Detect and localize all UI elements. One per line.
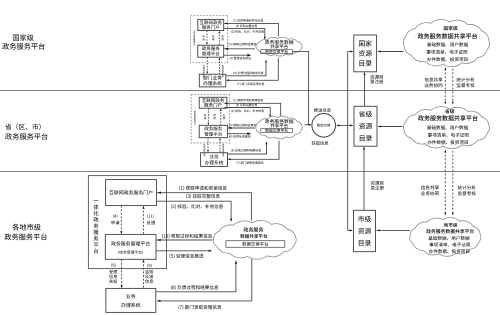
N wire (3) 获取完整信息 from portal to cloud [224, 29, 266, 40]
wire vertical catalog bus line [347, 52, 349, 231]
N label (8) 反馈过程和结果信息 [234, 72, 264, 75]
label 统计分析监督考核 lower [458, 185, 476, 195]
label 资源目录注册 upper [370, 75, 383, 84]
N label 受理 between portal and mgmt [212, 35, 214, 40]
divider line between provincial and municipal sections [0, 171, 500, 173]
P box 业务办理系统 [201, 153, 228, 167]
P wire 告知反馈信息 up arrow from biz system [219, 138, 224, 156]
N box 互联网政务服务门户 [198, 19, 224, 30]
C wire (3) 获取完整信息 from portal to cloud [156, 201, 232, 222]
wire 资源目录注册 arrow from 省级资源目录 up to 国家资源目录 [363, 72, 365, 106]
N label (7) 部门录取受理信息 [237, 83, 264, 86]
P label (10) 获取过程和结果信息 [228, 124, 259, 127]
N wire 反馈 up arrow between portal and mgmt [218, 31, 223, 46]
N box 数据交换平台 inside cloud [261, 50, 293, 54]
P label (2) 核验、比对、补充信息 [231, 109, 264, 112]
wire dashed 统计分析监督考核 between national and provincial clouds [452, 69, 454, 105]
label 省(区、市)政务服务平台 [5, 123, 47, 139]
N wire 受理信息告知 down arrow to dept system [203, 57, 208, 77]
C label (1) 获取申请和表单信息 [179, 186, 226, 191]
label 资源目录注册 lower [371, 181, 384, 190]
N wire 告知反馈信息 up arrow from dept system [219, 57, 224, 77]
label 获取信息 below circle [312, 141, 329, 145]
wire dashed 统计分析监督考核 between provincial and municipal clouds [452, 151, 454, 216]
wire stub into 国家资源目录 left [348, 51, 354, 53]
wire dashed 信息共享业务协同 between national and provincial clouds [444, 67, 446, 104]
C wire (4) 申请 dashed down arrow [111, 206, 122, 235]
wire double arrow between circle and 省级资源目录 [337, 124, 354, 126]
P wire (7) 部门录取受理信息 from cloud to biz system [228, 141, 279, 161]
N cloud 政务服务数据共享平台 [256, 37, 302, 56]
P wire (10) 获取过程和结果信息 from cloud to mgmt [227, 127, 254, 130]
C vertical label 一体化政务服务平台 [93, 200, 98, 253]
P box 数据交换平台 inside cloud [261, 129, 293, 133]
P label (5) 受理信息推送 [229, 135, 250, 138]
wire stub into 市级资源目录 left [348, 229, 353, 231]
label 信息共享业务协同 upper [424, 77, 442, 87]
N wire (5) 受理信息推送 from mgmt to cloud [224, 54, 251, 57]
P wire 申请 down arrow between portal and mgmt [204, 108, 209, 125]
C box 数据交换平台 inside cloud [226, 241, 285, 248]
N wire 申请 down arrow between portal and mgmt [202, 31, 207, 46]
P label (3) 获取完整信息 [236, 104, 257, 107]
P label (7) 部门录取受理信息 [237, 161, 264, 164]
C label (10) 获取过程和结果信息 [162, 234, 212, 239]
N dashed container 一体化政务服务平台 [191, 15, 228, 63]
C cloud 政务服务数据共享平台 [213, 220, 296, 259]
C label (7) 部门录取受理信息 [178, 305, 221, 310]
box 省级资源目录 [354, 106, 377, 146]
label 信息共享业务协同 lower [421, 185, 439, 195]
P box 互联网政务服务门户 [199, 97, 227, 108]
C box 业务办理系统 [106, 288, 156, 312]
C label (3) 获取完整信息 [186, 194, 220, 199]
box 国家资源目录 [354, 35, 377, 72]
wire from provincial data cloud to 省级资源目录 [378, 126, 402, 128]
wire 资源目录注册 arrow from 市级资源目录 up to 省级资源目录 [363, 146, 365, 210]
cloud 地市级政务服务数据共享平台 [410, 218, 481, 257]
wire from municipal data cloud to 市级资源目录 [377, 229, 410, 231]
P label (1) 获取申请和表单信息 [233, 99, 263, 102]
P wire 受理信息告知 down arrow to biz system [203, 138, 208, 157]
P wire (1) 获取申请和表单信息 from cloud to portal [224, 102, 281, 117]
C wire (6) 受理信息告知 dashed down arrow [109, 259, 123, 288]
N label (1) 获取申请和表单信息 [233, 19, 263, 22]
N wire from 数据交换平台 down to provincial exchange node [292, 52, 308, 125]
C wire (8) 反馈过程和结果信息 from biz system to cloud [156, 261, 237, 292]
C box 政务服务管理平台(综合受理平台) [105, 234, 156, 259]
N wire (7) 部门录取受理信息 from cloud to dept system [226, 58, 278, 82]
wire from national data cloud to 国家资源目录 [378, 51, 404, 53]
P label 受理 between portal and mgmt [213, 114, 215, 119]
N label (3) 获取完整信息 [236, 25, 257, 28]
cloud 省级政务服务数据共享平台 [403, 107, 489, 149]
N label (5) 受理信息推送 [230, 57, 251, 60]
P wire 反馈 up arrow between portal and mgmt [220, 108, 225, 125]
label 统计分析监督考核 upper [456, 77, 474, 87]
N box 政务服务管理平台 [198, 45, 224, 57]
C label (8) 反馈过程和结果信息 [171, 285, 218, 290]
N wire (1) 获取申请和表单信息 from cloud to portal [224, 22, 278, 36]
C wire (10) 获取过程和结果信息 from cloud to mgmt [156, 239, 213, 241]
P wire (5) 受理信息推送 from mgmt to cloud [227, 132, 251, 135]
P wire (8) 反馈过程和结果信息 from biz system to cloud [228, 141, 268, 154]
C label (2) 核验、比对、补充信息 [171, 204, 223, 209]
C container box 一体化政务服务平台 [88, 176, 166, 269]
P dashed container 一体化政务服务平台 [191, 94, 230, 143]
label 推送信息 above circle [314, 108, 331, 112]
C box 互联网政务服务门户 [106, 180, 157, 206]
divider line between national and provincial sections [0, 90, 500, 92]
label 各地市级政务服务平台 [5, 224, 47, 240]
P label (8) 反馈过程和结果信息 [231, 149, 261, 152]
C wire (5) 受理信息推送 from mgmt to cloud [156, 250, 212, 252]
wire dashed 信息共享业务协同 between provincial and municipal clouds [444, 150, 446, 216]
N wire (10) 获取过程和结果信息 from cloud to mgmt [224, 48, 255, 51]
C wire (7) 部门录取受理信息 from cloud to biz system [157, 259, 252, 302]
C wire (1) 获取申请和表单信息 from cloud to portal [156, 192, 251, 221]
N wire (8) 反馈过程和结果信息 from dept system to cloud [226, 60, 267, 76]
box 市级资源目录 [354, 210, 376, 251]
C label (5) 受理信息推送 [170, 254, 204, 259]
P cloud 政务服务数据共享平台 [256, 116, 302, 139]
N label (2) 核验、比对、补充信息 [231, 30, 264, 33]
N box 部门服务办理系统 [199, 74, 226, 87]
N label (10) 获取过程和结果信息 [228, 43, 259, 46]
P wire from cloud to exchange circle [305, 124, 312, 126]
P box 政务服务管理平台 [199, 125, 227, 137]
node exchange circle 数据交换 [312, 114, 336, 138]
P wire (3) 获取完整信息 from portal to cloud [224, 108, 271, 118]
cloud 国家级政务服务数据共享平台 [403, 19, 489, 66]
C wire (11) 反馈 dashed up arrow [142, 206, 155, 235]
C wire (9) 告知反馈信息 dashed up arrow [142, 260, 153, 289]
label 国家级政务服务平台 [2, 34, 44, 49]
